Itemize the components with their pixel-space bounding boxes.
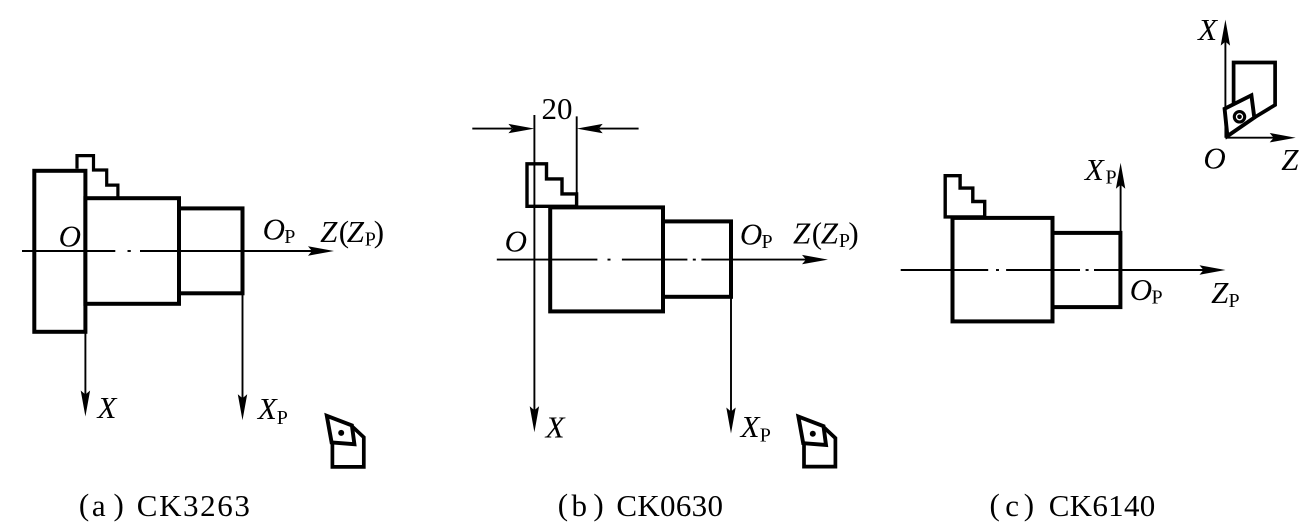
svg-text:20: 20	[542, 91, 573, 126]
svg-text:b: b	[572, 488, 588, 523]
centerline (c) dash 2	[1006, 269, 1080, 271]
centerline (a) dash	[22, 250, 115, 252]
cutting tool (a) center dot	[338, 430, 344, 436]
mini Z axis (c)	[1225, 137, 1274, 139]
svg-text:O: O	[505, 224, 527, 259]
centerline (b) dash 2	[622, 259, 688, 261]
mini tool insert (c)	[1225, 95, 1255, 136]
svg-text:P: P	[1152, 287, 1163, 309]
svg-text:X: X	[739, 409, 761, 444]
workpiece large step (b)	[550, 207, 663, 311]
X axis arrowhead (b)	[530, 406, 539, 432]
workpiece large step (a)	[85, 198, 179, 304]
svg-text:CK0630: CK0630	[616, 488, 723, 523]
dimension arrowhead right (b)	[577, 124, 603, 133]
svg-text:Z: Z	[320, 214, 338, 249]
dimension arrowhead left (b)	[508, 124, 534, 133]
svg-text:Z: Z	[347, 214, 365, 249]
cutting tool (b) center dot	[810, 431, 816, 437]
dimension line right (b)	[599, 128, 639, 130]
Zp axis arrowhead (c)	[1200, 265, 1226, 274]
svg-text:Z: Z	[821, 215, 839, 250]
svg-text:): )	[848, 215, 858, 250]
svg-text:X: X	[96, 390, 118, 425]
svg-text:X: X	[1196, 12, 1218, 47]
svg-text:(: (	[79, 487, 89, 522]
mini X axis arrowhead (c)	[1221, 20, 1230, 46]
centerline (b) dash	[497, 259, 598, 261]
centerline (b) dash 3 / Z axis shaft	[701, 259, 806, 261]
workpiece small step (c)	[1053, 233, 1121, 307]
svg-text:X: X	[256, 391, 278, 426]
svg-text:Z: Z	[1281, 142, 1299, 177]
centerline (c) dot 2	[1086, 269, 1089, 271]
cutting tool (a) holder	[332, 427, 363, 467]
svg-text:P: P	[277, 407, 288, 429]
svg-text:O: O	[1203, 141, 1225, 176]
cutting tool (b) holder	[804, 428, 835, 467]
mini Z axis arrowhead (c)	[1270, 133, 1296, 142]
X axis arrowhead (a)	[81, 391, 90, 417]
mini tool insert ring (c)	[1234, 112, 1244, 122]
svg-text:Z: Z	[793, 215, 811, 250]
centerline (b) dot 2	[693, 259, 696, 261]
Xp axis arrowhead (b)	[726, 408, 735, 434]
workpiece small step (b)	[663, 221, 731, 296]
centerline (c) dot	[996, 269, 999, 271]
Xp axis arrowhead (a)	[238, 394, 247, 420]
svg-text:P: P	[284, 226, 295, 248]
chuck jaw (a)	[77, 156, 118, 198]
svg-text:): )	[1024, 487, 1034, 522]
svg-text:O: O	[59, 218, 81, 253]
chuck body (a)	[34, 171, 85, 332]
svg-text:P: P	[1106, 166, 1117, 188]
extension line right (b)	[576, 116, 578, 194]
centerline (a) dot	[128, 250, 131, 252]
chuck jaw (c)	[945, 176, 985, 217]
Z axis arrowhead (b)	[802, 255, 828, 264]
svg-text:X: X	[1083, 152, 1105, 187]
Xp axis (a)	[242, 251, 244, 399]
centerline (c) dash 3 / Zp axis shaft	[1094, 269, 1204, 271]
svg-text:): )	[374, 214, 384, 249]
svg-text:O: O	[740, 216, 762, 251]
svg-text:(: (	[558, 487, 568, 522]
svg-text:CK6140: CK6140	[1049, 488, 1156, 523]
svg-text:X: X	[544, 409, 566, 444]
centerline (c) dash	[901, 269, 989, 271]
svg-text:a: a	[92, 488, 106, 523]
Xp axis (b)	[730, 260, 732, 412]
dimension line left (b)	[472, 128, 512, 130]
svg-text:P: P	[760, 424, 771, 446]
svg-text:O: O	[1130, 272, 1152, 307]
centerline (b) dot	[608, 259, 611, 261]
workpiece small step (a)	[179, 208, 243, 293]
svg-text:CK3263: CK3263	[137, 488, 252, 523]
svg-text:c: c	[1005, 488, 1019, 523]
X axis (a)	[84, 251, 86, 395]
centerline (a) dash 2 / Z axis shaft	[140, 250, 312, 252]
Xp axis (c)	[1120, 184, 1122, 270]
Xp axis arrowhead (c)	[1116, 163, 1125, 189]
svg-text:): )	[114, 487, 124, 522]
chuck jaw (b)	[527, 164, 577, 207]
workpiece large step (c)	[953, 218, 1053, 322]
svg-text:Z: Z	[1211, 275, 1229, 310]
X axis / extension line left (b)	[533, 115, 535, 411]
mini tool holder (c)	[1234, 63, 1276, 118]
cutting tool (a) insert	[327, 416, 355, 444]
cutting tool (b) insert	[798, 417, 826, 445]
svg-text:O: O	[263, 211, 285, 246]
svg-text:P: P	[762, 231, 773, 253]
svg-text:): )	[593, 487, 603, 522]
mini tool insert dot (c)	[1237, 115, 1242, 120]
svg-text:P: P	[1229, 290, 1240, 312]
Z axis arrowhead (a)	[308, 246, 334, 255]
svg-text:(: (	[990, 487, 1000, 522]
mini X axis (c)	[1224, 41, 1226, 138]
